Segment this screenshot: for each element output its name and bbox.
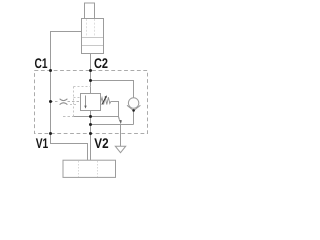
- svg-text:V2: V2: [94, 135, 108, 151]
- relief valve flow arrow: [85, 96, 87, 107]
- cartridge body internal line 1: [82, 37, 103, 39]
- svg-text:V1: V1: [36, 135, 49, 151]
- flange internal line 1: [78, 161, 80, 177]
- cartridge body (top component): [82, 19, 104, 54]
- junction node C2 branch: [89, 79, 92, 82]
- junction node check seat: [132, 109, 135, 112]
- junction node V2/bottom: [89, 132, 92, 135]
- wire branch to check valve: [91, 81, 134, 99]
- spring: [101, 97, 111, 104]
- junction node C1/top: [49, 69, 52, 72]
- junction node C2/top: [89, 69, 92, 72]
- spring drain line: [111, 102, 119, 117]
- vent line: [120, 125, 122, 147]
- junction node drain/V2: [89, 115, 92, 118]
- svg-text:C2: C2: [94, 55, 108, 71]
- spring adjustment arrow: [102, 98, 106, 105]
- check valve lower wire: [133, 111, 135, 125]
- pilot dashed line with orifice from C1: [51, 101, 60, 103]
- relief valve square U1: [81, 94, 101, 111]
- flange internal line 2: [97, 161, 99, 177]
- pilot dashed horizontal from C2 line: [74, 86, 91, 88]
- vent triangle: [115, 146, 125, 153]
- pilot dashed vertical: [73, 87, 75, 117]
- drain diagonal with arrowhead: [118, 117, 121, 120]
- dashed stub left of y116: [63, 116, 74, 118]
- wire C1 vertical: [50, 71, 52, 134]
- junction node check/V2: [89, 123, 92, 126]
- flange (bottom component): [63, 160, 116, 177]
- drain collector line y116: [74, 116, 119, 118]
- wire from body left side: [51, 32, 82, 71]
- check valve circle: [128, 98, 138, 108]
- cartridge internal dashed spool left: [86, 19, 88, 37]
- V2 collector line y124.5: [91, 124, 134, 126]
- svg-text:C1: C1: [35, 55, 48, 71]
- V2 vertical through box: [90, 111, 92, 161]
- junction node V1/bottom: [49, 132, 52, 135]
- cartridge internal dashed spool right: [94, 19, 96, 37]
- junction node pilot tap: [49, 100, 52, 103]
- orifice (throttle) symbol: [60, 99, 68, 101]
- valve boundary dashed box: [35, 71, 148, 134]
- cartridge body internal line 2: [82, 45, 103, 47]
- pilot dashed stub lower: [70, 104, 78, 106]
- pilot dashed stub upper: [74, 97, 81, 99]
- V1 wire to flange: [51, 134, 88, 161]
- cartridge body (top component) stem: [85, 3, 95, 19]
- wire C2 vertical to valve: [90, 54, 92, 94]
- check valve seat: [127, 105, 140, 110]
